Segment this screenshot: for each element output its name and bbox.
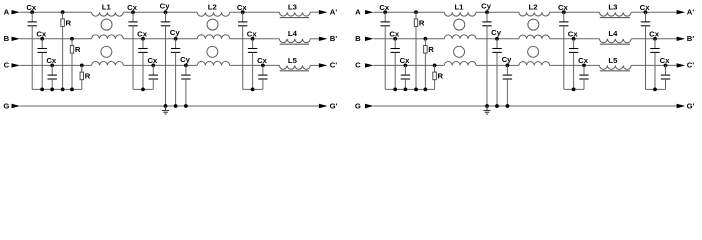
wire line G (left schematic) xyxy=(20,105,319,107)
capacitor Cx phase B (right schematic) xyxy=(572,37,576,41)
svg-text:C': C' xyxy=(330,61,338,70)
L4 core bar (right schematic) xyxy=(600,43,630,45)
input arrow A (right schematic) xyxy=(365,10,374,14)
output arrow A&apos; (right schematic) xyxy=(677,10,686,14)
inductor L3 (left schematic) xyxy=(279,12,310,16)
inductor L1 winding phase B (right schematic) xyxy=(444,35,476,39)
svg-text:Cy: Cy xyxy=(180,55,191,64)
wire Cy B to line G (left schematic) xyxy=(175,52,177,106)
L2 core circle upper (left schematic) xyxy=(207,19,218,30)
inductor L1 winding phase A (left schematic) xyxy=(92,12,124,16)
svg-text:G: G xyxy=(355,101,361,110)
wire line B segment (left schematic) xyxy=(230,38,280,40)
svg-text:Cx: Cx xyxy=(558,3,569,12)
svg-text:Cy: Cy xyxy=(502,55,513,64)
input arrow B (left schematic) xyxy=(12,37,21,41)
capacitor Cx phase B (left schematic) xyxy=(141,37,145,41)
output arrow A&apos; (left schematic) xyxy=(319,10,328,14)
svg-text:Cx: Cx xyxy=(26,3,37,12)
wire R A to star rail (right schematic) xyxy=(415,27,417,90)
svg-text:Cx: Cx xyxy=(568,30,579,39)
svg-text:A: A xyxy=(4,8,10,17)
wire Cx A to star rail (left schematic) xyxy=(132,26,134,90)
star rail wire for Cx group (left schematic) xyxy=(133,88,153,90)
junction on star rail xyxy=(424,88,428,92)
svg-text:G: G xyxy=(3,101,9,110)
L1 core circle lower (right schematic) xyxy=(454,46,465,57)
svg-text:C: C xyxy=(4,61,10,70)
L1 core circle lower (left schematic) xyxy=(101,46,112,57)
star rail wire for Cx group (right schematic) xyxy=(646,88,666,90)
resistor R phase A (left schematic) xyxy=(61,10,65,14)
inductor L3 (right schematic) xyxy=(600,12,632,16)
svg-text:L3: L3 xyxy=(288,3,297,12)
star rail wire for Cx group (left schematic) xyxy=(243,88,263,90)
wire line A segment (right schematic) xyxy=(476,11,519,13)
svg-text:L4: L4 xyxy=(288,29,298,38)
junction on star rail xyxy=(653,88,657,92)
wire Cy B to line G (right schematic) xyxy=(496,52,498,106)
junction Cy A on line G (left schematic) xyxy=(164,104,168,108)
svg-text:R: R xyxy=(66,18,72,27)
wire R C to star rail (right schematic) xyxy=(434,80,436,90)
capacitor Cx phase A (right schematic) xyxy=(383,10,387,14)
wire R C to star rail (left schematic) xyxy=(81,80,83,90)
star rail wire to resistors (right schematic) xyxy=(405,88,434,90)
capacitor Cy phase C (left schematic) xyxy=(184,64,188,68)
junction on star rail xyxy=(70,88,74,92)
wire line C segment (left schematic) xyxy=(230,64,280,66)
svg-text:R: R xyxy=(75,45,81,54)
inductor L1 winding phase B (left schematic) xyxy=(92,35,124,39)
junction Cy A on line G (right schematic) xyxy=(485,104,489,108)
junction Cy B on line G (left schematic) xyxy=(174,104,178,108)
junction Cy C on line G (right schematic) xyxy=(506,104,510,108)
wire Cx A to star rail (right schematic) xyxy=(645,26,647,90)
wire R B to star rail (right schematic) xyxy=(424,53,426,89)
L2 core circle lower (left schematic) xyxy=(207,46,218,57)
capacitor Cx phase C (right schematic) xyxy=(664,64,668,68)
svg-text:Cx: Cx xyxy=(237,3,248,12)
L4 core bar (left schematic) xyxy=(280,43,309,45)
junction Cy C on line G (left schematic) xyxy=(184,104,188,108)
wire line A segment (left schematic) xyxy=(123,11,197,13)
svg-text:Cx: Cx xyxy=(660,56,671,65)
svg-text:L2: L2 xyxy=(529,3,538,12)
output arrow G&apos; (right schematic) xyxy=(677,104,686,108)
wire Cx C to star rail (right schematic) xyxy=(665,79,667,89)
svg-text:Cx: Cx xyxy=(147,56,158,65)
inductor L2 winding phase C (left schematic) xyxy=(197,61,230,65)
junction on star rail xyxy=(61,88,65,92)
svg-text:L1: L1 xyxy=(102,3,112,12)
input arrow C (left schematic) xyxy=(12,63,21,67)
wire line A segment (right schematic) xyxy=(374,11,445,13)
svg-text:Cx: Cx xyxy=(137,30,148,39)
wire line C segment (right schematic) xyxy=(476,64,519,66)
capacitor Cx phase C (right schematic) xyxy=(582,64,586,68)
capacitor Cx phase B (left schematic) xyxy=(251,37,255,41)
output arrow B&apos; (right schematic) xyxy=(677,37,686,41)
svg-text:C': C' xyxy=(687,61,695,70)
svg-text:Cy: Cy xyxy=(481,2,492,11)
svg-text:Cx: Cx xyxy=(389,30,400,39)
resistor R phase C (left schematic) xyxy=(80,64,84,68)
wire Cy A to line G (left schematic) xyxy=(165,26,167,106)
junction on star rail xyxy=(251,88,255,92)
input arrow A (left schematic) xyxy=(12,10,21,14)
star rail wire for Cx group (left schematic) xyxy=(32,88,52,90)
wire line G (right schematic) xyxy=(374,105,677,107)
output arrow C&apos; (right schematic) xyxy=(677,63,686,67)
svg-text:L2: L2 xyxy=(208,3,217,12)
svg-text:Cy: Cy xyxy=(170,28,181,37)
output arrow C&apos; (left schematic) xyxy=(319,63,328,67)
inductor L4 (right schematic) xyxy=(600,39,632,43)
capacitor Cy phase A (left schematic) xyxy=(164,10,168,14)
svg-text:Cx: Cx xyxy=(247,30,258,39)
svg-text:A': A' xyxy=(687,8,695,17)
inductor L2 winding phase A (right schematic) xyxy=(519,12,550,16)
wire Cx B to star rail (left schematic) xyxy=(142,52,144,89)
wire line A segment (left schematic) xyxy=(20,11,92,13)
wire line A segment (left schematic) xyxy=(310,11,319,13)
svg-text:R: R xyxy=(438,72,444,81)
junction on star rail xyxy=(50,88,54,92)
L2 core circle lower (right schematic) xyxy=(528,46,539,57)
L5 core bar (left schematic) xyxy=(280,70,309,72)
capacitor Cx phase C (left schematic) xyxy=(261,64,265,68)
svg-text:R: R xyxy=(428,45,434,54)
wire R B to star rail (left schematic) xyxy=(71,53,73,89)
L5 core bar (right schematic) xyxy=(600,70,630,72)
junction on star rail xyxy=(393,88,397,92)
wire line B segment (right schematic) xyxy=(476,38,519,40)
svg-text:Cx: Cx xyxy=(640,3,651,12)
L3 core bar (left schematic) xyxy=(280,17,309,19)
inductor L5 (left schematic) xyxy=(279,65,310,69)
svg-text:G': G' xyxy=(330,101,338,110)
wire Cx C to star rail (left schematic) xyxy=(51,79,53,89)
svg-text:L5: L5 xyxy=(288,56,298,65)
wire Cx B to star rail (left schematic) xyxy=(252,52,254,89)
svg-text:Cx: Cx xyxy=(379,3,390,12)
capacitor Cy phase A (right schematic) xyxy=(485,10,489,14)
star rail wire for Cx group (right schematic) xyxy=(385,88,405,90)
wire line C segment (left schematic) xyxy=(310,64,319,66)
wire R A to star rail (left schematic) xyxy=(62,27,64,90)
wire line A segment (right schematic) xyxy=(631,11,677,13)
inductor L5 (right schematic) xyxy=(600,65,632,69)
inductor L2 winding phase B (left schematic) xyxy=(197,35,230,39)
svg-text:Cx: Cx xyxy=(649,30,660,39)
wire Cx A to star rail (right schematic) xyxy=(563,26,565,90)
L1 core circle upper (right schematic) xyxy=(454,19,465,30)
junction on star rail xyxy=(40,88,44,92)
capacitor Cx phase B (right schematic) xyxy=(653,37,657,41)
wire line C segment (right schematic) xyxy=(374,64,445,66)
svg-text:Cx: Cx xyxy=(257,56,268,65)
wire line B segment (right schematic) xyxy=(550,38,600,40)
junction on star rail xyxy=(572,88,576,92)
wire Cx A to star rail (left schematic) xyxy=(31,26,33,90)
resistor R phase B (left schematic) xyxy=(70,37,74,41)
wire Cx B to star rail (right schematic) xyxy=(573,52,575,89)
junction on star rail xyxy=(404,88,408,92)
svg-text:G': G' xyxy=(687,101,695,110)
svg-text:B: B xyxy=(4,34,10,43)
capacitor Cy phase B (right schematic) xyxy=(495,37,499,41)
svg-text:Cx: Cx xyxy=(127,3,138,12)
capacitor Cx phase C (left schematic) xyxy=(50,64,54,68)
capacitor Cx phase C (left schematic) xyxy=(151,64,155,68)
capacitor Cx phase A (left schematic) xyxy=(30,10,34,14)
junction on star rail xyxy=(141,88,145,92)
star rail wire for Cx group (right schematic) xyxy=(564,88,584,90)
inductor L1 winding phase C (right schematic) xyxy=(444,61,476,65)
svg-text:L4: L4 xyxy=(608,29,618,38)
wire Cx C to star rail (left schematic) xyxy=(262,79,264,89)
wire line C segment (right schematic) xyxy=(631,64,677,66)
wire line B segment (right schematic) xyxy=(631,38,677,40)
L3 core bar (right schematic) xyxy=(600,17,630,19)
capacitor Cx phase A (left schematic) xyxy=(241,10,245,14)
inductor L1 winding phase C (left schematic) xyxy=(92,61,124,65)
wire line C segment (left schematic) xyxy=(123,64,197,66)
L2 core circle upper (right schematic) xyxy=(528,19,539,30)
svg-text:Cx: Cx xyxy=(400,56,411,65)
wire Cx B to star rail (right schematic) xyxy=(654,52,656,89)
capacitor Cy phase B (left schematic) xyxy=(174,37,178,41)
svg-text:A': A' xyxy=(330,8,338,17)
wire Cy A to line G (right schematic) xyxy=(486,26,488,106)
ground symbol (left schematic) xyxy=(165,106,167,111)
ground symbol (right schematic) xyxy=(486,106,488,111)
svg-text:B': B' xyxy=(330,34,338,43)
wire line C segment (left schematic) xyxy=(20,64,92,66)
wire Cx C to star rail (right schematic) xyxy=(583,79,585,89)
resistor R phase C (right schematic) xyxy=(433,64,437,68)
inductor L4 (left schematic) xyxy=(279,39,310,43)
wire Cy C to line G (right schematic) xyxy=(506,79,508,106)
svg-text:R: R xyxy=(419,18,425,27)
capacitor Cx phase A (right schematic) xyxy=(644,10,648,14)
resistor R phase B (right schematic) xyxy=(424,37,428,41)
output arrow G&apos; (left schematic) xyxy=(319,104,328,108)
svg-text:A: A xyxy=(355,8,361,17)
wire line B segment (left schematic) xyxy=(310,38,319,40)
svg-text:L1: L1 xyxy=(454,3,464,12)
wire line B segment (right schematic) xyxy=(374,38,445,40)
capacitor Cx phase C (right schematic) xyxy=(404,64,408,68)
wire Cx A to star rail (left schematic) xyxy=(242,26,244,90)
capacitor Cx phase B (left schematic) xyxy=(40,37,44,41)
input arrow B (right schematic) xyxy=(365,37,374,41)
svg-text:Cy: Cy xyxy=(491,28,502,37)
svg-text:Cy: Cy xyxy=(160,2,171,11)
wire line B segment (left schematic) xyxy=(123,38,197,40)
inductor L1 winding phase A (right schematic) xyxy=(444,12,476,16)
junction Cy B on line G (right schematic) xyxy=(495,104,499,108)
wire Cx B to star rail (right schematic) xyxy=(394,52,396,89)
svg-text:Cx: Cx xyxy=(36,30,47,39)
resistor R phase A (right schematic) xyxy=(414,10,418,14)
input arrow G (left schematic) xyxy=(12,104,21,108)
svg-text:L5: L5 xyxy=(608,56,618,65)
wire Cx C to star rail (left schematic) xyxy=(152,79,154,89)
svg-text:R: R xyxy=(85,72,91,81)
wire Cx A to star rail (right schematic) xyxy=(384,26,386,90)
svg-text:C: C xyxy=(355,61,361,70)
wire Cy C to line G (left schematic) xyxy=(185,79,187,106)
wire line A segment (left schematic) xyxy=(230,11,280,13)
junction on star rail xyxy=(414,88,418,92)
wire Cx B to star rail (left schematic) xyxy=(41,52,43,89)
star rail wire to resistors (left schematic) xyxy=(52,88,82,90)
inductor L2 winding phase C (right schematic) xyxy=(519,62,550,66)
svg-text:B: B xyxy=(355,34,361,43)
input arrow C (right schematic) xyxy=(365,63,374,67)
output arrow B&apos; (left schematic) xyxy=(319,37,328,41)
capacitor Cx phase B (right schematic) xyxy=(393,37,397,41)
inductor L2 winding phase A (left schematic) xyxy=(197,12,230,16)
capacitor Cx phase A (right schematic) xyxy=(562,10,566,14)
svg-text:B': B' xyxy=(687,34,695,43)
inductor L2 winding phase B (right schematic) xyxy=(519,35,550,39)
capacitor Cy phase C (right schematic) xyxy=(506,64,510,68)
svg-text:Cx: Cx xyxy=(46,56,57,65)
wire line A segment (right schematic) xyxy=(550,11,600,13)
capacitor Cx phase A (left schematic) xyxy=(131,10,135,14)
svg-text:Cx: Cx xyxy=(578,56,589,65)
wire Cx C to star rail (right schematic) xyxy=(404,79,406,89)
svg-text:L3: L3 xyxy=(608,3,617,12)
wire line C segment (right schematic) xyxy=(550,64,600,66)
L1 core circle upper (left schematic) xyxy=(101,19,112,30)
input arrow G (right schematic) xyxy=(365,104,374,108)
wire line B segment (left schematic) xyxy=(20,38,92,40)
